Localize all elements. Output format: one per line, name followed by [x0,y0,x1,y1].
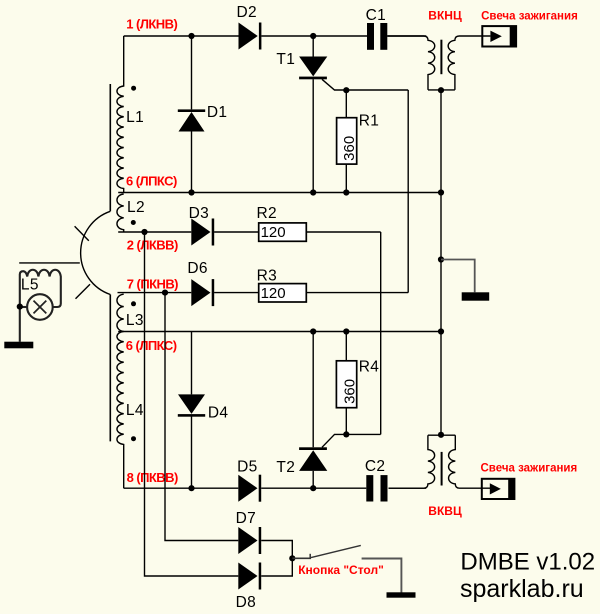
svg-text:L4: L4 [126,402,144,419]
switch contact tick [309,554,311,559]
svg-text:1 (ЛКНВ): 1 (ЛКНВ) [126,16,177,31]
svg-text:D1: D1 [207,104,228,121]
wire net2 [118,232,381,434]
transformer VKVC core [441,452,443,486]
ground 1 [4,342,33,349]
thyristor T2 [312,332,314,489]
svg-text:C2: C2 [365,458,386,475]
node bus ground branch [438,256,444,262]
svg-text:Кнопка "Стол": Кнопка "Стол" [298,563,384,577]
wire D7/D8 join [261,541,292,577]
inductor L5 loop [20,270,61,342]
capacitor C1 [367,23,374,50]
ground 3 [387,592,416,597]
svg-text:Свеча зажигания: Свеча зажигания [481,10,578,22]
diode D3 [191,219,210,246]
svg-text:120: 120 [261,285,286,302]
svg-text:360: 360 [342,379,359,404]
wire to switch [292,557,311,559]
node R1 bottom [343,189,349,195]
wire net7 to D7 [165,293,238,541]
svg-text:L1: L1 [126,109,144,126]
ground 2 [462,292,490,300]
svg-text:R4: R4 [359,358,380,375]
node D1 bottom [188,189,194,195]
node T2 bottom [310,485,316,491]
node T1 bottom [310,189,316,195]
resistor R4 [345,332,347,435]
resistor R3 [259,284,307,302]
L3 polarity dot [131,301,136,306]
winding L2 [117,194,124,232]
node switch branch [289,555,295,561]
diode D8 [238,563,257,590]
node bus net6 [438,189,444,195]
svg-text:6 (ЛПКС): 6 (ЛПКС) [126,174,177,189]
wire net6 lower [118,331,441,333]
node gate/R4 [343,431,349,437]
svg-text:L5: L5 [21,276,39,293]
L1 polarity dot [131,86,136,91]
wire net7 [118,292,409,294]
svg-text:D5: D5 [237,458,258,475]
svg-text:T2: T2 [276,459,295,476]
node gate/R1 [343,87,349,93]
node T1 top [310,33,316,39]
magneto shaft line [19,262,80,264]
spark plug 2 [482,479,515,499]
wire net6 upper [118,192,441,194]
svg-text:C1: C1 [366,7,387,24]
magneto pole stroke top [75,226,89,240]
transformer VKNC right winding [448,36,490,90]
magneto rotor arc [81,211,111,294]
wire lamp left stub [20,306,27,308]
transformer core (left vertical, magneto gap) [109,84,111,441]
transformer VKNC core [440,40,442,74]
L2 polarity dot [131,220,136,225]
svg-text:D8: D8 [236,594,257,611]
svg-text:Свеча зажигания: Свеча зажигания [481,462,578,474]
diode D5 [238,475,257,502]
svg-text:R1: R1 [359,112,380,129]
L4 polarity dot [131,436,136,441]
lamp (in L5 circuit) [27,294,53,320]
svg-text:120: 120 [261,224,286,241]
svg-text:sparklab.ru: sparklab.ru [460,575,584,603]
svg-text:D6: D6 [187,260,208,277]
svg-text:2 (ЛКВВ): 2 (ЛКВВ) [127,237,178,252]
svg-text:L2: L2 [127,199,145,216]
svg-text:D7: D7 [236,510,257,527]
svg-text:ВКНЦ: ВКНЦ [428,8,462,22]
transformer VKNC left winding [387,36,434,90]
node bus net6 lower [438,328,444,334]
resistor R1 [345,90,347,192]
right bus (transformer center taps) [440,90,442,435]
capacitor C2 [366,475,373,501]
node lamp junction [17,304,23,310]
node D1 top [188,33,194,39]
T2 gate wire [322,434,381,447]
node transformer VKVC tap [438,432,444,438]
svg-text:6 (ЛПКС): 6 (ЛПКС) [126,338,177,353]
node net2 branch [141,229,147,235]
T1 gate wire [322,79,408,90]
svg-text:D2: D2 [237,4,258,21]
svg-text:R2: R2 [257,205,278,222]
thyristor T1 [312,36,314,193]
wire R3 to T1 gate vertical [407,90,409,293]
node net7 branch [162,290,168,296]
diode D4 [191,332,193,489]
winding L3+L4 continuous [117,294,124,488]
magneto pole stroke bottom [76,284,91,298]
diode D2 [239,23,258,50]
svg-text:7 (ПКНВ): 7 (ПКНВ) [127,276,178,291]
wire switch to ground3 [362,559,402,593]
node R4 top [343,328,349,334]
svg-text:D3: D3 [189,205,210,222]
svg-text:L3: L3 [126,312,144,329]
node transformer tap [438,87,444,93]
svg-text:8 (ПКВВ): 8 (ПКВВ) [127,470,178,485]
svg-text:DMBE v1.02: DMBE v1.02 [460,548,595,575]
switch arm [311,545,361,557]
spark plug 1 [482,26,516,46]
resistor R2 [259,223,307,241]
node D4 bottom [188,485,194,491]
svg-text:R3: R3 [257,267,278,284]
transformer VKVC right winding [449,435,490,488]
svg-text:360: 360 [341,136,358,161]
diode D1 [191,36,193,193]
diode D7 [238,527,257,554]
wire net1 [124,35,427,37]
wire net8 [124,487,427,489]
svg-text:D4: D4 [208,405,229,422]
wire bus to ground2 [441,260,475,293]
transformer VKVC top bracket [428,434,455,436]
node T2 top [310,328,316,334]
transformer VKNC bottom bracket [428,89,455,91]
wire net2 to D8 [145,232,239,576]
winding L1 [117,36,124,193]
svg-text:ВКВЦ: ВКВЦ [428,504,462,518]
svg-text:T1: T1 [276,51,295,68]
diode D6 [191,279,210,306]
transformer VKVC left winding [389,435,435,488]
